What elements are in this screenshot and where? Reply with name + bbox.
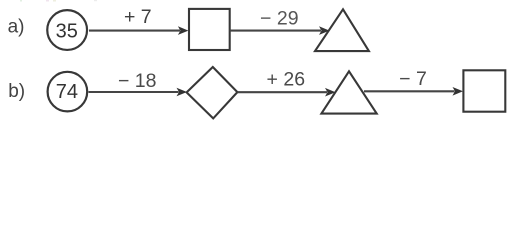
svg-text:− 7: − 7 xyxy=(399,68,427,90)
arrowhead b2 xyxy=(325,88,336,97)
node B2: diamond xyxy=(187,67,238,118)
node A1: input circle xyxy=(47,10,87,50)
wire a1 xyxy=(89,30,180,32)
wire b1 xyxy=(89,91,179,93)
scan artifacts top edge xyxy=(20,0,22,2)
wire b3 xyxy=(364,90,455,92)
svg-text:− 29: − 29 xyxy=(260,8,299,30)
arrowhead a1 xyxy=(178,26,189,35)
svg-text:+ 26: + 26 xyxy=(267,69,306,91)
node B1: input circle xyxy=(48,72,88,112)
node A2: square box xyxy=(189,9,230,50)
node A3: triangle xyxy=(315,9,369,51)
svg-text:+ 7: + 7 xyxy=(124,6,152,28)
node B4: square box xyxy=(463,70,505,111)
wire a2 xyxy=(230,30,321,32)
wire b2 xyxy=(237,91,327,93)
arrowhead b3 xyxy=(453,87,464,96)
svg-text:74: 74 xyxy=(56,81,78,103)
svg-text:a): a) xyxy=(8,17,25,38)
svg-text:b): b) xyxy=(8,81,25,102)
svg-text:35: 35 xyxy=(56,20,78,42)
arrowhead b1 xyxy=(177,88,188,97)
svg-text:− 18: − 18 xyxy=(118,70,157,92)
node B3: triangle xyxy=(321,71,376,113)
arrowhead a2 xyxy=(319,26,330,35)
